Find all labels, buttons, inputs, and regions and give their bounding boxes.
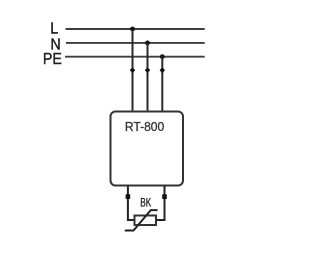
terminal square left sensor	[126, 194, 131, 199]
wire L drop	[132, 29, 134, 112]
wire PE rail	[65, 56, 205, 58]
wire N rail	[66, 42, 205, 44]
wire sensor left lead	[128, 186, 135, 221]
arrow on PE drop	[160, 67, 165, 73]
svg-text:L: L	[50, 21, 58, 38]
wire PE drop	[161, 57, 163, 112]
wire N drop	[147, 43, 149, 112]
svg-text:PE: PE	[43, 51, 62, 68]
junction dot on PE rail	[160, 54, 165, 59]
terminal square right sensor	[162, 194, 167, 199]
junction dot on N rail	[145, 41, 150, 46]
junction dot on L rail	[130, 27, 135, 32]
wire sensor right lead	[156, 186, 165, 221]
arrow on N drop	[145, 67, 150, 73]
controller U1 RT-800 body	[111, 112, 184, 186]
wire L rail	[66, 28, 205, 30]
arrow on L drop	[130, 67, 135, 73]
svg-text:BK: BK	[140, 198, 151, 210]
thermistor BK diagonal stroke	[125, 210, 158, 230]
thermistor BK body	[135, 216, 157, 226]
svg-text:RT-800: RT-800	[125, 119, 164, 134]
